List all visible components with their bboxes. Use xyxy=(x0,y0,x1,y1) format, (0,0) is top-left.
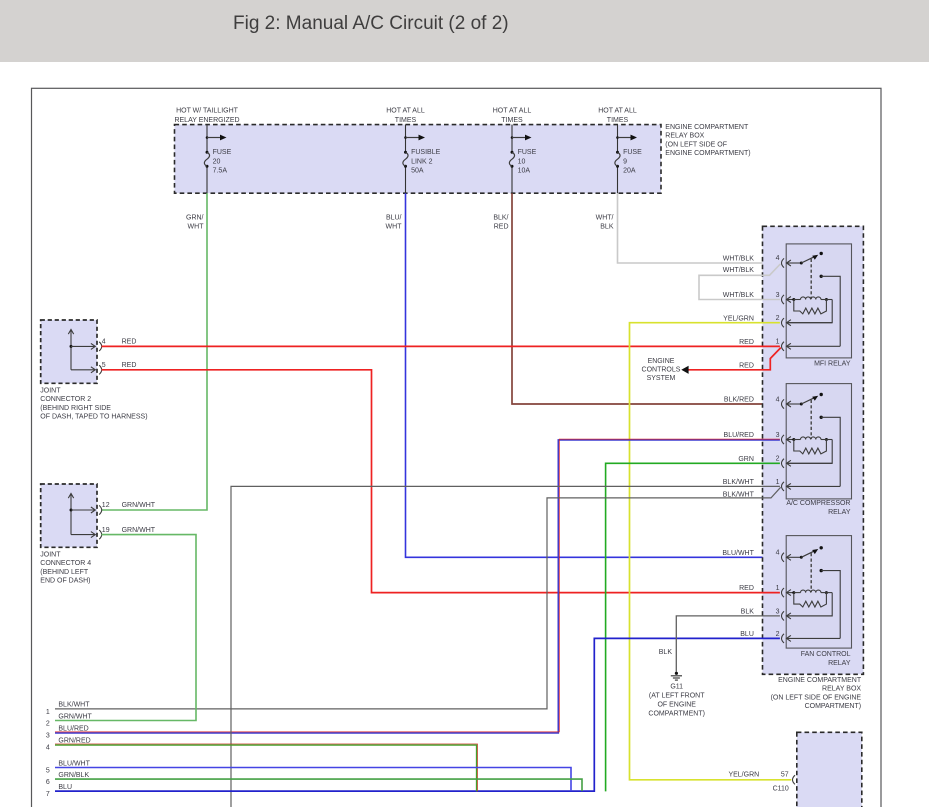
pin 4 xyxy=(782,553,785,562)
relay coil parallel resistor xyxy=(794,440,827,454)
wire 5 BLU/WHT xyxy=(55,768,571,792)
relay coil parallel resistor xyxy=(794,593,827,607)
pin 5 xyxy=(99,365,102,374)
svg-text:2: 2 xyxy=(776,315,780,322)
svg-text:2: 2 xyxy=(46,720,50,727)
connector C110 box xyxy=(797,732,862,807)
wire RED joint connector 2 pin 5 to fan control relay pin 1 xyxy=(102,370,780,593)
svg-text:(ON LEFT SIDE OF: (ON LEFT SIDE OF xyxy=(665,141,727,148)
svg-text:(ON LEFT SIDE OF ENGINE: (ON LEFT SIDE OF ENGINE xyxy=(771,694,862,701)
svg-text:GRN/WHT: GRN/WHT xyxy=(58,713,92,720)
relay common contact to output pin xyxy=(820,275,823,278)
engine compartment relay box (top) xyxy=(175,125,662,194)
svg-text:3: 3 xyxy=(46,733,50,740)
svg-text:HOT AT ALL: HOT AT ALL xyxy=(493,107,532,114)
pin 12 xyxy=(99,505,102,514)
svg-text:HOT AT ALL: HOT AT ALL xyxy=(386,107,425,114)
svg-text:LINK 2: LINK 2 xyxy=(411,158,433,165)
svg-text:GRN/: GRN/ xyxy=(186,215,204,222)
svg-text:4: 4 xyxy=(776,255,780,262)
relay common contact to output pin xyxy=(820,416,823,419)
svg-text:CONTROLS: CONTROLS xyxy=(642,367,681,374)
wire BLU/RED A/C relay pin 3 to wire 3 xyxy=(55,440,780,733)
wire 2 GRN/WHT to joint connector 4 pin 19 xyxy=(55,535,196,721)
relay coil xyxy=(787,437,791,443)
svg-text:19: 19 xyxy=(102,527,110,534)
svg-text:RED: RED xyxy=(739,362,754,369)
wire YEL/GRN MFI pin 2 to C110 pin 57 xyxy=(630,323,792,780)
wire RED branch from MFI pin 1 to engine controls system xyxy=(689,348,781,370)
relay coil return to pin xyxy=(787,440,833,464)
joint connector box xyxy=(41,320,97,383)
pin 1 xyxy=(782,482,785,491)
svg-text:RED: RED xyxy=(494,223,509,230)
svg-text:20: 20 xyxy=(213,158,221,165)
svg-text:TIMES: TIMES xyxy=(501,117,523,124)
svg-text:COMPARTMENT): COMPARTMENT) xyxy=(805,703,862,710)
svg-text:(AT LEFT FRONT: (AT LEFT FRONT xyxy=(649,693,705,700)
svg-text:3: 3 xyxy=(776,432,780,439)
svg-text:BLU/WHT: BLU/WHT xyxy=(58,760,90,767)
svg-text:1: 1 xyxy=(46,709,50,716)
relay actuator dashed line xyxy=(810,400,812,439)
relay actuator dashed line xyxy=(810,259,812,299)
wire BLK fan relay pin 3 to ground G11 xyxy=(676,616,780,672)
svg-text:C110: C110 xyxy=(773,786,789,793)
svg-text:BLU/WHT: BLU/WHT xyxy=(722,550,754,557)
relay coil xyxy=(787,590,791,596)
pin 3 xyxy=(782,435,785,444)
svg-text:5: 5 xyxy=(102,362,106,369)
pin 1 xyxy=(782,588,785,597)
svg-text:(BEHIND LEFT: (BEHIND LEFT xyxy=(40,569,89,576)
svg-text:WHT/BLK: WHT/BLK xyxy=(723,292,754,299)
svg-text:RED: RED xyxy=(122,339,137,346)
svg-text:WHT/BLK: WHT/BLK xyxy=(723,256,754,263)
joint connector internal arrows xyxy=(68,494,73,499)
svg-text:3: 3 xyxy=(776,608,780,615)
svg-text:20A: 20A xyxy=(623,168,636,175)
svg-text:FAN CONTROL: FAN CONTROL xyxy=(801,651,851,658)
svg-text:6: 6 xyxy=(46,779,50,786)
svg-text:7.5A: 7.5A xyxy=(213,168,228,175)
svg-text:JOINT: JOINT xyxy=(40,552,61,559)
svg-text:OF ENGINE: OF ENGINE xyxy=(657,702,696,709)
svg-text:END OF DASH): END OF DASH) xyxy=(40,577,90,584)
svg-text:ENGINE COMPARTMENT: ENGINE COMPARTMENT xyxy=(778,677,862,684)
wire BLK/WHT A/C relay pin 1 upper to vertical 231 xyxy=(231,486,780,807)
svg-text:FUSE: FUSE xyxy=(213,149,232,156)
joint connector box xyxy=(41,484,97,547)
wire RED joint connector 2 pin 4 to MFI relay pin 1 xyxy=(102,345,780,347)
relay switch contact xyxy=(787,554,791,560)
wire WHT/BLK from fuse 9 to MFI relay pin 4 xyxy=(618,193,780,263)
svg-text:BLU/RED: BLU/RED xyxy=(724,432,754,439)
svg-text:2: 2 xyxy=(776,456,780,463)
svg-text:GRN/BLK: GRN/BLK xyxy=(58,772,89,779)
pin 2 xyxy=(782,634,785,643)
svg-text:HOT AT ALL: HOT AT ALL xyxy=(598,107,637,114)
svg-text:OF DASH, TAPED TO HARNESS): OF DASH, TAPED TO HARNESS) xyxy=(40,413,147,420)
wire BLU fan relay pin 2 to wire 7 xyxy=(55,638,780,791)
pin 4 xyxy=(782,258,785,267)
relay switch contact xyxy=(787,401,791,407)
svg-text:BLK/RED: BLK/RED xyxy=(724,397,754,404)
fuse FUSE 20 xyxy=(206,125,208,152)
svg-text:A/C COMPRESSOR: A/C COMPRESSOR xyxy=(786,500,850,507)
svg-text:COMPARTMENT): COMPARTMENT) xyxy=(648,711,705,718)
svg-text:10: 10 xyxy=(518,158,526,165)
relay box A/C COMPRESSOR xyxy=(786,384,851,499)
relay common contact to output pin xyxy=(820,569,823,572)
svg-text:RELAY: RELAY xyxy=(828,660,851,667)
relay actuator dashed line xyxy=(810,553,812,592)
svg-text:7: 7 xyxy=(46,791,50,798)
svg-text:GRN/WHT: GRN/WHT xyxy=(122,527,156,534)
svg-text:CONNECTOR 4: CONNECTOR 4 xyxy=(40,560,91,567)
relay switch contact xyxy=(787,260,791,266)
pin 4 xyxy=(99,342,102,351)
ground G11 xyxy=(675,672,678,675)
svg-text:4: 4 xyxy=(102,339,106,346)
wire BLK/RED from fuse 10 to A/C compressor relay pin 4 xyxy=(512,193,780,404)
svg-text:RED: RED xyxy=(739,585,754,592)
svg-text:4: 4 xyxy=(776,550,780,557)
svg-text:WHT/: WHT/ xyxy=(596,215,614,222)
svg-text:RELAY ENERGIZED: RELAY ENERGIZED xyxy=(174,117,239,124)
wire 4 GRN/RED xyxy=(55,745,477,791)
svg-text:BLK: BLK xyxy=(741,609,755,616)
wire BLK/WHT A/C relay pin 1 lower to wire 1 xyxy=(55,487,781,709)
svg-text:YEL/GRN: YEL/GRN xyxy=(723,315,754,322)
svg-text:ENGINE COMPARTMENT): ENGINE COMPARTMENT) xyxy=(665,150,750,157)
pin 19 xyxy=(99,530,102,539)
pin 2 xyxy=(782,318,785,327)
wire 6 GRN/BLK xyxy=(55,779,582,791)
svg-text:BLU/: BLU/ xyxy=(386,215,402,222)
svg-text:3: 3 xyxy=(776,292,780,299)
fuse FUSE 10 xyxy=(511,125,513,152)
svg-text:G11: G11 xyxy=(670,684,683,691)
relay coil return to pin xyxy=(787,300,833,323)
joint connector internal arrows xyxy=(68,330,73,335)
svg-text:BLK/WHT: BLK/WHT xyxy=(58,702,90,709)
svg-text:RED: RED xyxy=(739,339,754,346)
pin 4 xyxy=(782,399,785,408)
relay coil xyxy=(787,297,791,303)
svg-text:BLU/RED: BLU/RED xyxy=(58,726,88,733)
arrow to engine controls system xyxy=(681,366,688,374)
wire WHT/BLK jumper MFI pin 4 to pin 3 xyxy=(699,264,780,300)
pin 2 xyxy=(782,459,785,468)
svg-text:FUSE: FUSE xyxy=(518,149,537,156)
relay box FAN CONTROL xyxy=(786,536,851,649)
svg-text:TIMES: TIMES xyxy=(607,117,629,124)
engine compartment relay box (right, dashed) xyxy=(763,226,864,674)
svg-text:RELAY BOX: RELAY BOX xyxy=(822,686,861,693)
svg-text:50A: 50A xyxy=(411,168,424,175)
svg-text:JOINT: JOINT xyxy=(40,388,61,395)
pin 3 xyxy=(782,611,785,620)
wire GRN A/C relay pin 2 down xyxy=(606,463,780,791)
svg-text:SYSTEM: SYSTEM xyxy=(647,375,676,382)
svg-text:RED: RED xyxy=(122,362,137,369)
title bar xyxy=(0,0,929,62)
svg-text:1: 1 xyxy=(776,585,780,592)
svg-text:BLU: BLU xyxy=(58,784,72,791)
svg-text:BLK: BLK xyxy=(659,649,673,656)
svg-text:FUSE: FUSE xyxy=(623,149,642,156)
svg-text:FUSIBLE: FUSIBLE xyxy=(411,149,441,156)
svg-text:RELAY BOX: RELAY BOX xyxy=(665,133,704,140)
svg-text:MFI RELAY: MFI RELAY xyxy=(814,361,851,368)
svg-text:4: 4 xyxy=(776,396,780,403)
svg-text:GRN: GRN xyxy=(738,456,754,463)
svg-text:TIMES: TIMES xyxy=(395,117,417,124)
pin 57 of C110 xyxy=(793,775,796,784)
svg-text:BLK/WHT: BLK/WHT xyxy=(723,479,755,486)
svg-text:(BEHIND RIGHT SIDE: (BEHIND RIGHT SIDE xyxy=(40,405,111,412)
svg-text:1: 1 xyxy=(776,479,780,486)
svg-text:BLK: BLK xyxy=(600,223,614,230)
svg-text:HOT W/ TAILLIGHT: HOT W/ TAILLIGHT xyxy=(176,107,239,114)
relay coil parallel resistor xyxy=(794,300,827,314)
svg-text:2: 2 xyxy=(776,631,780,638)
relay coil return to pin xyxy=(787,593,833,616)
svg-text:WHT: WHT xyxy=(386,223,403,230)
svg-text:WHT: WHT xyxy=(188,223,205,230)
svg-text:57: 57 xyxy=(781,771,789,778)
pin 1 xyxy=(782,342,785,351)
svg-text:10A: 10A xyxy=(518,168,531,175)
svg-text:9: 9 xyxy=(623,158,627,165)
svg-text:BLU: BLU xyxy=(740,631,754,638)
fuse FUSIBLE LINK 2 xyxy=(405,125,407,152)
wire BLU/WHT from fusible link 2 to fan control relay pin 4 xyxy=(406,193,780,557)
svg-text:ENGINE COMPARTMENT: ENGINE COMPARTMENT xyxy=(665,124,749,131)
svg-text:RELAY: RELAY xyxy=(828,509,851,516)
svg-text:5: 5 xyxy=(46,767,50,774)
svg-text:1: 1 xyxy=(776,339,780,346)
wire GRN/WHT from fuse 20 to joint connector 4 pin 12 xyxy=(102,193,208,510)
svg-text:YEL/GRN: YEL/GRN xyxy=(728,771,759,778)
fuse FUSE 9 xyxy=(617,125,619,152)
svg-text:GRN/RED: GRN/RED xyxy=(58,737,90,744)
svg-text:ENGINE: ENGINE xyxy=(648,358,675,365)
svg-text:GRN/WHT: GRN/WHT xyxy=(122,502,156,509)
svg-text:WHT/BLK: WHT/BLK xyxy=(723,267,754,274)
svg-text:12: 12 xyxy=(102,502,110,509)
pin 3 xyxy=(782,295,785,304)
relay box MFI RELAY xyxy=(786,244,851,358)
svg-text:CONNECTOR 2: CONNECTOR 2 xyxy=(40,396,91,403)
svg-text:BLK/: BLK/ xyxy=(493,215,508,222)
svg-text:4: 4 xyxy=(46,744,50,751)
